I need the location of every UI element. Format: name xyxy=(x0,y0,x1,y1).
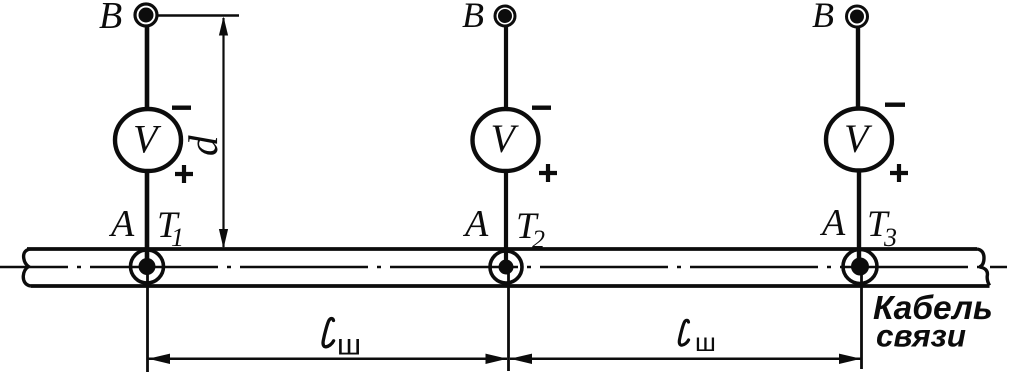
svg-text:В: В xyxy=(812,0,834,35)
cable sheath top line xyxy=(27,247,977,251)
dimension l_sh (T2-T3) line xyxy=(510,358,861,361)
extension line below cable (unit 1) xyxy=(146,267,149,372)
svg-text:d: d xyxy=(180,135,226,156)
svg-text:ш: ш xyxy=(695,327,716,357)
svg-text:3: 3 xyxy=(883,223,897,252)
terminal A circle T1 xyxy=(131,250,164,283)
svg-text:В: В xyxy=(99,0,122,37)
minus polarity mark (unit 2) xyxy=(532,106,551,110)
extension line below cable (unit 3) xyxy=(860,267,863,369)
wire voltmeter to cable terminal (unit 2) xyxy=(504,169,508,267)
dimension l_sh (T1-T2) line xyxy=(148,358,507,361)
dimension d: top reference line from terminal B xyxy=(158,14,239,17)
terminal B (unit 3) xyxy=(847,6,868,27)
minus polarity mark (unit 3) xyxy=(885,103,905,107)
node A dot on cable T3 xyxy=(851,258,869,276)
wire voltmeter to cable terminal (unit 3) xyxy=(857,169,861,267)
svg-text:А: А xyxy=(819,202,846,244)
extension line below cable (unit 2) xyxy=(507,267,510,371)
cable axis dash-dot line xyxy=(0,266,1007,269)
cable right break end xyxy=(977,249,990,286)
svg-text:А: А xyxy=(108,203,135,245)
terminal A circle T2 xyxy=(490,251,522,283)
cable left break end xyxy=(23,249,30,286)
dimension d: bottom arrowhead xyxy=(219,229,228,249)
minus polarity mark (unit 1) xyxy=(172,106,191,110)
svg-text:А: А xyxy=(462,203,489,245)
voltmeter U3 circle xyxy=(826,109,892,171)
terminal B (unit 1) xyxy=(135,4,157,26)
voltmeter U2 circle xyxy=(473,109,539,171)
terminal B (unit 2) xyxy=(495,6,515,26)
node A dot on cable T1 xyxy=(139,258,156,275)
node A dot on cable T2 xyxy=(499,260,514,275)
wire B to voltmeter (unit 1) xyxy=(145,25,150,110)
label l (script ell) of l_sh (T2-T3) xyxy=(679,320,688,345)
terminal A circle T3 xyxy=(843,250,877,284)
plus polarity mark (unit 3) xyxy=(890,164,908,182)
plus polarity mark (unit 1) xyxy=(175,165,193,183)
svg-text:ш: ш xyxy=(337,329,361,362)
dimension d: vertical line xyxy=(222,18,224,247)
label l (script ell) of l_sh (T1-T2) xyxy=(323,319,334,347)
svg-text:В: В xyxy=(462,0,484,35)
wire B to voltmeter (unit 3) xyxy=(856,27,860,109)
svg-text:1: 1 xyxy=(171,223,184,252)
dimension d: top arrowhead xyxy=(219,17,228,36)
wire B to voltmeter (unit 2) xyxy=(504,26,508,109)
cable sheath bottom line xyxy=(31,284,990,288)
wire voltmeter to cable terminal (unit 1) xyxy=(145,170,150,267)
plus polarity mark (unit 2) xyxy=(539,164,557,182)
svg-text:2: 2 xyxy=(532,225,545,254)
voltmeter U1 circle xyxy=(115,109,181,171)
svg-text:связи: связи xyxy=(876,318,966,354)
